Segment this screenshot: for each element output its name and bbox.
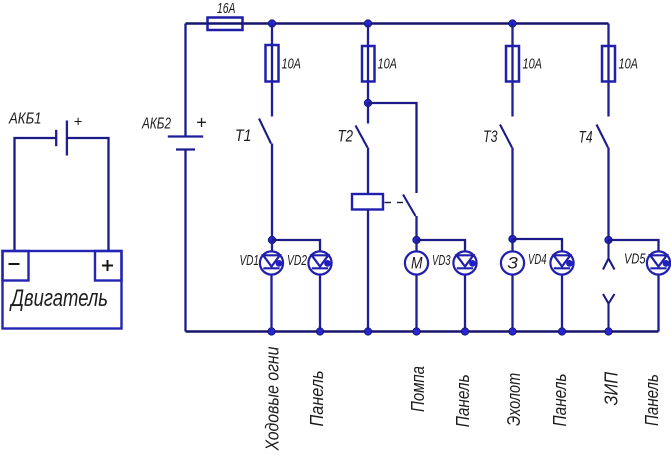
wire VD4 to bottom bus (561, 275, 563, 332)
svg-text:VD3: VD3 (432, 252, 451, 269)
fuse FU2 10A (266, 45, 279, 82)
lamp VD4 (550, 251, 573, 274)
wire contact to node (415, 216, 417, 240)
sounder device circle E (501, 251, 524, 274)
svg-text:10А: 10А (619, 57, 639, 73)
svg-text:Помпа: Помпа (408, 366, 428, 412)
svg-text:Т3: Т3 (483, 128, 498, 146)
fuse FU3 10A (362, 46, 375, 82)
node ZIP top junction (605, 236, 612, 243)
svg-text:10А: 10А (282, 57, 302, 73)
node VD1 top junction (268, 236, 275, 243)
svg-text:16А: 16А (217, 0, 236, 17)
switch T2 blade (356, 126, 368, 148)
node bottom junction ZIP (605, 328, 612, 335)
switch T1 blade (259, 119, 271, 144)
node bottom junction T2 (364, 328, 371, 335)
wire sounder to bottom bus (511, 275, 513, 332)
relay coil K1 (352, 194, 383, 210)
svg-text:Т1: Т1 (235, 127, 252, 145)
svg-text:З: З (508, 254, 519, 273)
fuse FU4 10A (506, 46, 519, 82)
svg-text:+: + (74, 114, 83, 131)
engine minus terminal box (3, 251, 29, 281)
switch T4 blade (597, 125, 609, 148)
wire bus to fuse FU3 (367, 24, 369, 104)
svg-text:Двигатель: Двигатель (9, 285, 108, 312)
lamp VD5 (647, 251, 670, 274)
fuse FU1 16A (208, 18, 243, 31)
wire bus to fuse FU2 (271, 24, 273, 117)
wire AKB2 top lead to top bus (184, 24, 186, 137)
node top junction T3 (509, 20, 516, 27)
connector X1 upper fork (603, 240, 615, 270)
motor M (405, 251, 428, 274)
node top junction T2 (364, 20, 371, 27)
battery AKB2 (168, 137, 203, 150)
node bottom junction VD1 (268, 328, 275, 335)
svg-text:10А: 10А (378, 57, 398, 73)
wire node to sounder (511, 239, 513, 252)
wire node to VD1 (271, 240, 273, 252)
node T2 split junction (364, 99, 371, 106)
wire junction to T2 switch (367, 103, 369, 124)
node M top junction (413, 236, 420, 243)
svg-text:Эхолот: Эхолот (504, 373, 524, 426)
wire node to VD5 column (609, 240, 659, 252)
wire VD2 to bottom bus (319, 275, 321, 332)
wire T1 to node (271, 144, 273, 241)
wire T3 to node (511, 148, 513, 240)
wire M to bottom bus (415, 275, 417, 332)
svg-text:ЗИП: ЗИП (602, 371, 622, 405)
node bottom junction VD2 (316, 328, 323, 335)
switch T3 blade (500, 125, 512, 148)
wire node to VD4 column (513, 239, 563, 252)
wire VD5 to bottom bus (657, 275, 659, 332)
engine plus sign (102, 260, 113, 271)
lamp VD1 (260, 251, 283, 274)
wire T4 to node (607, 148, 609, 241)
wire VD3 to bottom bus (464, 275, 466, 332)
svg-text:М: М (411, 254, 423, 273)
svg-text:Панель: Панель (307, 371, 327, 427)
svg-text:Панель: Панель (550, 374, 570, 427)
node top junction T1 (268, 20, 275, 27)
svg-text:Т2: Т2 (338, 128, 354, 146)
connector X1 lower fork (603, 294, 615, 332)
node bottom junction VD4 (558, 328, 565, 335)
wire junction to relay contact column (368, 103, 417, 193)
wire AKB1 left lead (15, 138, 57, 251)
engine box outer (3, 251, 122, 329)
wire node to motor M (415, 240, 417, 252)
wire top bus (186, 22, 609, 25)
wire T2 to relay coil (367, 148, 369, 195)
wire bottom bus (186, 330, 659, 333)
svg-text:АКБ2: АКБ2 (141, 116, 171, 133)
engine plus terminal box (95, 251, 122, 281)
wire AKB1 right lead (67, 138, 109, 251)
wire node to VD2 column (272, 240, 320, 252)
svg-text:VD4: VD4 (528, 251, 547, 268)
svg-text:Панель: Панель (453, 374, 473, 427)
svg-text:+: + (196, 113, 207, 133)
svg-text:АКБ1: АКБ1 (8, 111, 41, 128)
wire bus corner to fuse FU5 (607, 24, 609, 117)
fuse FU5 10A (602, 46, 615, 82)
lamp VD2 (308, 251, 331, 274)
wire coil to bottom bus (367, 210, 369, 332)
relay contact K1.1 blade (403, 195, 416, 217)
svg-text:Панель: Панель (642, 374, 662, 426)
node E top junction (509, 235, 516, 242)
svg-text:Т4: Т4 (579, 129, 593, 147)
svg-text:VD5: VD5 (624, 251, 646, 268)
wire VD1 to bottom bus (270, 275, 272, 332)
mechanical link dashed (385, 202, 404, 204)
wire bus to fuse FU4 (511, 24, 513, 117)
svg-text:VD1: VD1 (240, 252, 260, 269)
svg-text:10А: 10А (523, 57, 543, 73)
engine minus sign (9, 263, 20, 265)
svg-text:Ходовые огни: Ходовые огни (262, 347, 282, 452)
node bottom junction M (413, 328, 420, 335)
node bottom junction E (509, 328, 516, 335)
svg-text:VD2: VD2 (287, 252, 307, 269)
wire node to VD3 column (417, 240, 466, 252)
battery AKB1 (56, 121, 67, 156)
lamp VD3 (453, 251, 476, 274)
wire AKB2 bottom lead to bottom bus (184, 150, 186, 332)
node bottom junction VD3 (461, 328, 468, 335)
